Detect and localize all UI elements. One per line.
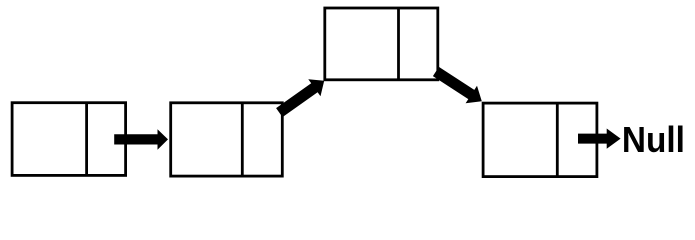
svg-text:Null: Null bbox=[622, 119, 685, 160]
arrow 4 (node 4 -> Null) bbox=[578, 129, 621, 149]
node box 2 bbox=[171, 103, 283, 176]
arrow 3 (node 3 -> node 4, diagonal down) bbox=[433, 67, 482, 103]
arrow 1 (node 1 -> node 2) bbox=[114, 129, 168, 150]
arrow 2 (node 2 -> node 3, diagonal up) bbox=[276, 79, 324, 117]
node box 4 bbox=[483, 103, 597, 177]
node box 1 bbox=[12, 103, 126, 176]
node box 3 bbox=[325, 8, 438, 80]
